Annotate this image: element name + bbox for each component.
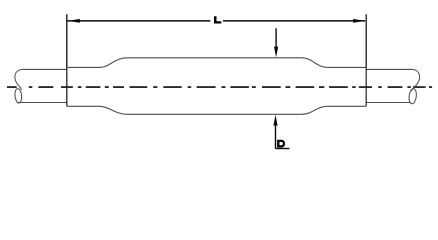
dimension L: line right part [223,20,365,22]
bulged body: bottom edge [127,113,302,115]
dimension D: upper arrow tail [275,28,277,48]
dimension L: left extension line [66,14,68,67]
centerline (right-mid segment) [352,86,413,88]
right swage transition: bottom ogee [302,106,327,114]
dimension L: left arrowhead [68,19,80,23]
pipe right segment: top edge [366,68,413,70]
right swage transition: top ogee [302,58,327,68]
coupling left end face [66,67,68,106]
dimension L: line left part [67,20,210,22]
pipe right break loop [408,88,417,104]
dimension D: leader shoulder [276,148,290,150]
coupling left collar: bottom edge [67,105,100,107]
dimension D: lower arrowhead (points up to body bottom) [273,115,277,126]
pipe right segment: bottom edge [366,102,410,104]
coupling right collar: bottom edge [327,105,366,107]
label D [277,140,285,148]
label L [214,16,221,23]
dimension D: lower arrow tail [275,124,277,149]
pipe left break loop [14,88,22,103]
pipe left S-break (conventional round break) [15,69,22,90]
centerline (dash-dot axis) [7,86,349,88]
left swage transition: top ogee [100,58,127,68]
centerline (right end segment) [413,86,432,88]
pipe left segment: top edge [22,68,67,70]
dimension D: upper arrowhead (points down to body top) [274,47,278,58]
pipe right S-break (conventional round break) [411,69,419,91]
dimension L: right extension line [365,14,367,67]
coupling right collar: top edge [327,66,366,68]
pipe left segment: bottom edge [17,102,67,104]
dimension L: right arrowhead [353,19,365,23]
left swage transition: bottom ogee [100,106,127,114]
bulged body: top edge [127,57,302,59]
coupling right end face [365,67,367,106]
coupling left collar: top edge [67,66,100,68]
